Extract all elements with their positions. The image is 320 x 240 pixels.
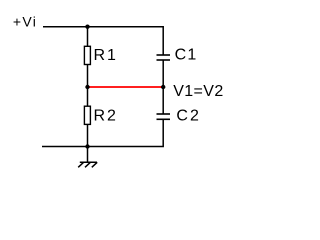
svg-text:C1: C1: [175, 47, 198, 64]
svg-text:V1=V2: V1=V2: [173, 83, 223, 100]
wire: stub from bottom rail to ground: [87, 147, 89, 163]
junction dot top rail / R1: [85, 25, 89, 29]
junction dot node V2: [161, 85, 165, 89]
junction dot bottom rail: [85, 144, 89, 148]
svg-text:C2: C2: [176, 108, 200, 125]
wire: top rail from +Vi to top-right corner, down to C1: [43, 27, 163, 55]
wire: C1 bottom to C2 top through node V2: [162, 60, 164, 114]
capacitor C1: [157, 55, 171, 60]
wire: red node link V1 to V2: [88, 86, 164, 88]
svg-text:+Vi: +Vi: [13, 14, 37, 30]
svg-text:R1: R1: [94, 47, 118, 64]
svg-text:R2: R2: [94, 108, 118, 125]
wire: left branch vertical from top rail into R1: [87, 27, 89, 47]
wire: C2 bottom down to bottom rail corner: [42, 119, 163, 146]
capacitor C2: [157, 114, 171, 119]
ground: [78, 162, 97, 167]
resistor R2: [84, 106, 90, 124]
wire: R2 bottom to bottom rail: [87, 124, 89, 146]
junction dot node V1: [85, 85, 89, 89]
wire: R1 bottom to R2 top through node V1: [87, 65, 89, 107]
resistor R1: [84, 46, 90, 64]
